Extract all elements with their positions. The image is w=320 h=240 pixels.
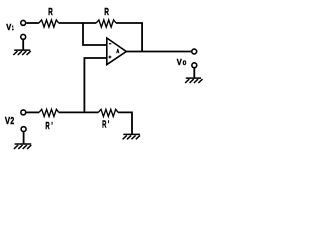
svg-text:': ' xyxy=(108,119,110,130)
node Vo ground reference terminal xyxy=(192,63,197,68)
svg-text:V: V xyxy=(6,22,11,32)
svg-text:0: 0 xyxy=(183,60,187,67)
op-amp gain label A xyxy=(116,49,119,55)
wire R2 to feedback corner, down to output xyxy=(116,23,142,52)
svg-text:A: A xyxy=(116,49,119,55)
op-amp plus sign xyxy=(109,56,112,58)
resistor R2 (feedback R, top) xyxy=(96,20,116,27)
svg-text:V: V xyxy=(177,57,182,67)
node V1 input terminal xyxy=(21,20,26,25)
label V2 xyxy=(5,116,15,127)
svg-text:R: R xyxy=(102,119,107,130)
wire V2 to R' xyxy=(26,111,39,113)
label R' (to ground) xyxy=(102,119,109,130)
ground (bottom right) xyxy=(123,134,140,139)
op-amp minus sign xyxy=(109,43,111,45)
node Vo output terminal xyxy=(192,49,197,54)
node V1 ground reference terminal xyxy=(21,34,26,39)
wire R1 to R2 through node A xyxy=(59,22,96,24)
wire V1 to R xyxy=(26,22,39,24)
wire node A down to op-amp minus input xyxy=(83,23,107,45)
node V2 ground reference terminal xyxy=(21,127,26,132)
label R' (input) xyxy=(45,121,52,132)
op-amp U1 xyxy=(107,38,127,65)
svg-text:': ' xyxy=(51,121,53,132)
resistor R'2 (to ground) xyxy=(98,109,118,116)
wire node B up to op-amp plus input xyxy=(84,58,106,112)
wire R'2 to ground corner xyxy=(118,112,132,134)
wire R'1 to R'2 through node B xyxy=(59,111,99,113)
svg-text:R: R xyxy=(48,7,53,18)
svg-text:R: R xyxy=(45,121,50,132)
label Vo xyxy=(177,57,187,67)
label R (input) xyxy=(48,7,53,18)
label R (feedback) xyxy=(104,7,109,18)
ground (under V1) xyxy=(13,50,30,55)
svg-text:1: 1 xyxy=(12,25,14,32)
wire Vo reference to ground xyxy=(193,68,195,78)
label V1 xyxy=(6,22,14,32)
wire op-amp output to Vo terminal xyxy=(126,51,191,53)
wire V2 reference to ground xyxy=(23,132,25,144)
svg-text:2: 2 xyxy=(10,116,14,127)
resistor R'1 (V2 input R') xyxy=(39,109,59,116)
resistor R1 (input R, top left) xyxy=(39,20,59,27)
wire V1 reference to ground xyxy=(22,40,24,50)
ground (under V2) xyxy=(14,144,31,149)
svg-text:R: R xyxy=(104,7,109,18)
ground (under Vo) xyxy=(185,78,202,83)
node V2 input terminal xyxy=(21,110,26,115)
